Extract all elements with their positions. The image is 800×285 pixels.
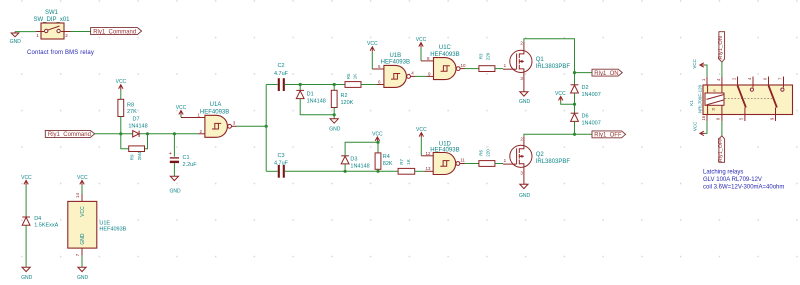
- svg-text:Q2: Q2: [536, 152, 545, 158]
- power VCC (U1A pin1): [176, 105, 187, 116]
- svg-text:16: 16: [701, 115, 706, 120]
- wire: [465, 163, 479, 165]
- svg-text:R9: R9: [130, 154, 135, 160]
- svg-text:4.7uF: 4.7uF: [274, 71, 289, 77]
- mechanical link: [725, 97, 773, 99]
- diode D7 1N4148: [128, 117, 147, 137]
- resistor R6 220: [479, 149, 495, 167]
- wire: [415, 75, 427, 77]
- svg-text:VCC: VCC: [693, 121, 698, 131]
- svg-text:R2: R2: [341, 93, 348, 99]
- wire: [285, 170, 398, 172]
- svg-text:D4: D4: [34, 216, 41, 222]
- svg-text:GND: GND: [21, 275, 33, 281]
- svg-text:R6: R6: [479, 150, 484, 156]
- wire: [575, 133, 593, 135]
- svg-text:IRL3803PBF: IRL3803PBF: [536, 159, 571, 165]
- wire: [81, 185, 83, 194]
- op-amp U1E HEF4093B power unit: [68, 192, 127, 256]
- svg-text:C1: C1: [183, 155, 190, 161]
- node Rly1_OFF (global label): [592, 131, 626, 139]
- svg-text:Rly1_OFF: Rly1_OFF: [594, 133, 622, 139]
- wire: [420, 138, 422, 156]
- ground (C1): [169, 176, 181, 194]
- svg-text:Rly1_OFF: Rly1_OFF: [718, 137, 724, 162]
- svg-text:GND: GND: [80, 233, 86, 245]
- svg-text:HEF4093B: HEF4093B: [381, 60, 410, 66]
- svg-text:IRL3803PBF: IRL3803PBF: [536, 64, 571, 70]
- wire: [495, 68, 503, 70]
- diode D3 1N4148: [341, 142, 378, 171]
- svg-text:HEF4093B: HEF4093B: [200, 109, 229, 115]
- svg-text:27K: 27K: [127, 109, 137, 115]
- power VCC (U1C pin8): [416, 37, 427, 48]
- svg-text:1.5KExxA: 1.5KExxA: [34, 223, 58, 229]
- svg-text:GND: GND: [329, 127, 341, 133]
- svg-text:SW1: SW1: [45, 10, 59, 16]
- svg-text:1K: 1K: [353, 74, 358, 80]
- svg-text:D6: D6: [582, 114, 589, 120]
- svg-text:GND: GND: [10, 39, 22, 45]
- wire: [266, 84, 277, 86]
- svg-text:2.2uF: 2.2uF: [183, 162, 198, 168]
- diode D2 1N4007: [571, 73, 601, 114]
- svg-text:R3: R3: [479, 53, 484, 59]
- node Rly1_ON (vertical label): [718, 32, 725, 62]
- switch SW1 SW_DIP_x01: [33, 10, 70, 39]
- diode D1 1N4148: [296, 85, 334, 115]
- svg-text:R7: R7: [399, 159, 404, 165]
- wire: [495, 163, 503, 165]
- svg-text:HEF4093B: HEF4093B: [99, 226, 126, 232]
- transistor Q2 IRL3803PBF: [503, 136, 570, 184]
- wire: [15, 31, 36, 33]
- resistor R2 120K: [331, 85, 353, 119]
- svg-text:Contact from BMS relay: Contact from BMS relay: [27, 50, 94, 56]
- svg-text:VCC: VCC: [77, 175, 88, 181]
- wire: [180, 116, 182, 118]
- svg-text:GND: GND: [519, 99, 531, 105]
- svg-text:U1B: U1B: [389, 53, 401, 59]
- svg-text:coil 3.6W=12V-300mA=40ohm: coil 3.6W=12V-300mA=40ohm: [703, 184, 784, 190]
- power VCC (U1B pin5): [367, 41, 378, 52]
- transistor Q1 IRL3803PBF: [503, 40, 570, 91]
- wire: [415, 170, 425, 172]
- svg-text:VCC: VCC: [80, 206, 86, 217]
- svg-text:1K: 1K: [406, 159, 411, 165]
- op-amp U1B HEF4093B nand gate: [372, 53, 415, 88]
- wire: [420, 48, 422, 61]
- svg-text:1N4148: 1N4148: [350, 164, 369, 170]
- svg-text:12: 12: [425, 151, 431, 156]
- wire: [120, 117, 122, 134]
- node Rly1_OFF (vertical label): [718, 136, 725, 163]
- coil: [705, 93, 724, 105]
- wire: [25, 185, 27, 216]
- wire: [25, 225, 27, 267]
- power VCC (D4): [21, 175, 32, 186]
- node Rly1_Command (global label mid-left): [45, 130, 94, 138]
- svg-text:4.7uF: 4.7uF: [274, 161, 289, 167]
- wire main row: [95, 133, 133, 135]
- svg-text:11: 11: [460, 158, 465, 163]
- resistor R5 1K: [345, 73, 361, 87]
- wire: [71, 31, 91, 33]
- op-amp U1D HEF4093B nand gate: [421, 141, 465, 174]
- svg-text:GND: GND: [519, 193, 531, 199]
- wire: [81, 256, 83, 268]
- svg-text:D3: D3: [350, 157, 357, 163]
- node Rly1_ON (global label): [592, 69, 622, 77]
- relay K1 NRL709F-120: [689, 77, 793, 122]
- resistor R3 220: [479, 52, 495, 71]
- svg-text:U1A: U1A: [210, 102, 222, 108]
- ground (Q2): [519, 184, 531, 199]
- capacitor C2 4.7uF: [274, 63, 289, 91]
- wire: [465, 68, 479, 70]
- ground: [10, 32, 22, 46]
- power VCC (U1E): [77, 175, 88, 186]
- svg-text:R: R: [712, 107, 715, 112]
- svg-text:GLV 100A RL709-12V: GLV 100A RL709-12V: [703, 177, 762, 183]
- svg-text:NRL709F-120: NRL709F-120: [697, 84, 702, 113]
- svg-text:120K: 120K: [341, 100, 354, 106]
- wire splitter vertical: [265, 85, 267, 172]
- resistor R7 1K: [398, 159, 415, 175]
- svg-text:Q1: Q1: [536, 57, 545, 63]
- svg-text:S: S: [713, 88, 716, 93]
- wire: [575, 72, 593, 74]
- op-amp U1A HEF4093B nand gate: [181, 102, 237, 137]
- svg-text:GND: GND: [169, 188, 181, 194]
- svg-text:R4: R4: [383, 154, 390, 160]
- op-amp U1C HEF4093B nand gate: [421, 45, 466, 80]
- svg-text:C3: C3: [277, 153, 284, 159]
- text note: relay description: [703, 170, 784, 191]
- svg-text:R8: R8: [127, 103, 134, 109]
- ground (R2/D1): [329, 119, 341, 133]
- wire: [721, 121, 723, 136]
- ground (D4): [21, 267, 33, 281]
- wire Q1 drain rail: [524, 39, 575, 73]
- svg-text:R5: R5: [346, 73, 351, 79]
- svg-text:SW_DIP_x01: SW_DIP_x01: [33, 17, 70, 23]
- svg-text:D1: D1: [307, 91, 314, 97]
- contact 2: [768, 77, 770, 86]
- svg-text:220: 220: [485, 149, 490, 157]
- svg-text:VCC: VCC: [21, 175, 32, 181]
- resistor R4 82K: [375, 142, 393, 171]
- svg-text:14: 14: [75, 192, 80, 198]
- power VCC (R4/D3 rail): [372, 131, 383, 143]
- ground (Q1): [519, 92, 531, 105]
- power VCC (for R8): [116, 79, 127, 90]
- svg-text:K1: K1: [689, 100, 694, 106]
- svg-text:Rly1_ON: Rly1_ON: [718, 36, 724, 60]
- node junction: [119, 132, 122, 135]
- wire: [266, 170, 277, 172]
- svg-text:U1D: U1D: [439, 141, 452, 147]
- svg-text:+: +: [169, 151, 172, 157]
- power VCC (relay reset, rotated): [693, 121, 708, 136]
- wire Q2 drain rail: [524, 134, 575, 136]
- coil pins outside: [706, 77, 708, 85]
- svg-text:1N4148: 1N4148: [307, 98, 326, 104]
- power VCC (U1D pin12): [416, 127, 427, 138]
- svg-text:2M4: 2M4: [137, 151, 142, 160]
- wire: [721, 62, 723, 77]
- node Rly1_Command (hier label top-left): [91, 28, 142, 36]
- wire: [285, 84, 345, 86]
- svg-text:1N4007: 1N4007: [582, 92, 601, 98]
- svg-text:1N4007: 1N4007: [582, 120, 601, 126]
- svg-text:VCC: VCC: [692, 58, 697, 68]
- svg-text:Latching relays: Latching relays: [703, 170, 743, 176]
- svg-text:C2: C2: [277, 63, 284, 69]
- ground (U1E): [77, 267, 89, 281]
- svg-text:D2: D2: [582, 85, 589, 91]
- svg-text:13: 13: [425, 166, 431, 171]
- power VCC (relay set, rotated): [692, 58, 707, 77]
- capacitor C3 4.7uF: [274, 153, 289, 178]
- wire: [361, 84, 377, 86]
- capacitor C1 2.2uF: [169, 134, 198, 176]
- diode D6 1N4007: [571, 113, 601, 134]
- svg-text:82K: 82K: [383, 161, 393, 167]
- svg-text:VCC: VCC: [116, 79, 127, 85]
- power VCC (relay diodes): [555, 91, 576, 106]
- svg-text:U1C: U1C: [439, 45, 452, 51]
- svg-text:Rly1_Command: Rly1_Command: [93, 29, 136, 35]
- svg-text:1N4148: 1N4148: [128, 123, 147, 129]
- wire: [371, 52, 373, 69]
- contact 1: [737, 77, 739, 86]
- diode D4 1.5KExxA: [22, 216, 58, 229]
- wire output to splitter: [237, 125, 267, 127]
- svg-text:GND: GND: [77, 275, 89, 281]
- wire: [120, 90, 122, 99]
- svg-text:220: 220: [485, 52, 490, 60]
- resistor R8 27K: [118, 99, 137, 116]
- svg-text:Rly1_ON: Rly1_ON: [594, 71, 618, 77]
- svg-text:D7: D7: [132, 117, 139, 123]
- svg-text:10: 10: [461, 63, 467, 68]
- resistor R9 2M4 (parallel loop): [121, 134, 148, 160]
- svg-text:Rly1_Command: Rly1_Command: [48, 132, 91, 138]
